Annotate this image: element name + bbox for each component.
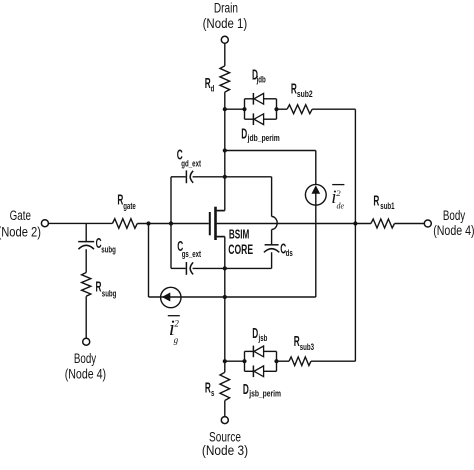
svg-text:R: R — [294, 332, 300, 349]
svg-text:jsb_perim: jsb_perim — [248, 389, 281, 399]
svg-text:Gate: Gate — [10, 207, 31, 223]
svg-text:jdb_perim: jdb_perim — [247, 133, 280, 143]
svg-text:(Node 4): (Node 4) — [433, 223, 474, 239]
svg-text:D: D — [241, 125, 247, 142]
svg-text:gs_ext: gs_ext — [182, 249, 202, 260]
svg-text:d: d — [211, 83, 215, 94]
svg-text:(Node 2): (Node 2) — [0, 224, 41, 239]
svg-text:Body: Body — [443, 207, 466, 223]
svg-text:gd_ext: gd_ext — [181, 158, 201, 169]
svg-text:subg: subg — [102, 288, 117, 299]
svg-text:2: 2 — [174, 318, 179, 328]
svg-text:g: g — [174, 335, 179, 345]
svg-text:2: 2 — [336, 188, 341, 198]
svg-text:BSIM: BSIM — [229, 228, 250, 242]
svg-text:R: R — [205, 379, 211, 396]
svg-text:R: R — [291, 80, 297, 97]
svg-text:subg: subg — [101, 244, 116, 255]
svg-text:sub3: sub3 — [300, 342, 314, 353]
svg-text:sub1: sub1 — [380, 201, 395, 212]
svg-text:Body: Body — [74, 350, 97, 366]
svg-text:(Node 1): (Node 1) — [203, 15, 248, 31]
svg-text:D: D — [252, 325, 258, 342]
svg-text:(Node 3): (Node 3) — [202, 442, 248, 458]
svg-text:jdb: jdb — [256, 74, 266, 85]
svg-text:jsb: jsb — [258, 333, 268, 344]
svg-text:(Node 4): (Node 4) — [65, 366, 106, 382]
svg-text:sub2: sub2 — [297, 89, 313, 99]
svg-text:CORE: CORE — [228, 243, 253, 257]
svg-text:R: R — [373, 192, 379, 209]
svg-text:s: s — [211, 388, 214, 399]
svg-text:de: de — [337, 202, 345, 211]
svg-text:Drain: Drain — [214, 0, 238, 16]
svg-text:gate: gate — [123, 201, 136, 212]
svg-text:D: D — [243, 381, 249, 398]
svg-text:R: R — [96, 278, 102, 295]
svg-text:ds: ds — [286, 248, 293, 259]
svg-text:R: R — [205, 74, 211, 91]
